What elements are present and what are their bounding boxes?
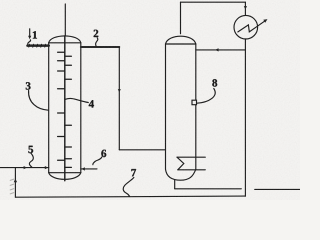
overhead line of column 8 to condenser xyxy=(181,2,247,34)
label 8 xyxy=(212,79,217,86)
leader of label 3 xyxy=(29,91,49,111)
feed line 1 (thick) xyxy=(28,44,49,47)
column C1 (rectifying column, item 4) xyxy=(49,36,81,181)
feed line 5 with arrows xyxy=(0,166,49,169)
reflux line to column 8 xyxy=(196,48,246,51)
leader of label 8 xyxy=(197,89,215,104)
arrow for label 1 xyxy=(28,29,31,39)
bottoms recycle line 7 xyxy=(15,196,245,197)
trays of column 4 xyxy=(58,52,72,167)
condenser outlet downcomer xyxy=(244,39,246,196)
leader of label 2 xyxy=(96,38,98,47)
label 7 xyxy=(131,169,136,176)
hatch marks at left end xyxy=(10,179,14,194)
bottoms outlet of column 8 xyxy=(175,180,300,190)
label 3 xyxy=(26,82,31,89)
reboiler heater zigzag in column 8 xyxy=(177,157,205,170)
stub 6 at bottom right of column 4 xyxy=(81,167,97,170)
condenser E1 (circle with zigzag arrow) xyxy=(234,15,268,39)
column C2 (item 8 column) xyxy=(166,36,196,180)
wire vent line top of column 4 xyxy=(64,4,66,36)
nozzle square 8 xyxy=(192,100,197,105)
scan noise overlay xyxy=(0,0,300,200)
leader of label 7 xyxy=(123,178,134,197)
line 2: overhead of column 4 to column 8 xyxy=(81,47,166,150)
recycle riser from line 7 to line 5 xyxy=(14,168,17,198)
label 5 xyxy=(28,146,33,153)
label 2 xyxy=(94,30,99,37)
leader of label 6 xyxy=(93,157,102,165)
leader of label 1 xyxy=(28,40,31,45)
label 1 xyxy=(33,31,37,38)
label 4 xyxy=(89,100,94,107)
label 6 xyxy=(101,150,106,157)
leader of label 4 xyxy=(65,98,88,102)
leader of label 5 xyxy=(29,153,33,167)
